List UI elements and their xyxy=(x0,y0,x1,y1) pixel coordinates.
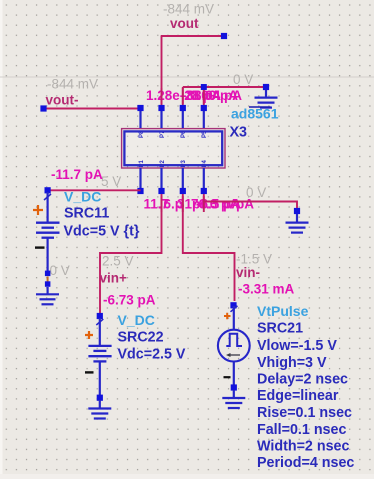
svg-text:Vhigh=3 V: Vhigh=3 V xyxy=(257,355,327,371)
svg-text:Vlow=-1.5 V: Vlow=-1.5 V xyxy=(257,338,337,354)
tick SRC22 xyxy=(96,319,103,325)
stem SRC21 top xyxy=(233,306,235,330)
svg-text:P3: P3 xyxy=(181,159,187,167)
node at ground G1 xyxy=(263,84,269,90)
terminal P4 xyxy=(201,188,207,194)
svg-text:Vdc=2.5 V: Vdc=2.5 V xyxy=(118,347,186,363)
pulse source VtPulse SRC21 xyxy=(218,302,250,385)
ground node G3 xyxy=(45,281,51,287)
svg-text:0.09 pA: 0.09 pA xyxy=(190,88,238,103)
plus sign SRC11 xyxy=(33,205,43,215)
orange pin stub xyxy=(47,277,49,282)
node G5 xyxy=(231,384,237,390)
node vout endpoint xyxy=(221,33,227,39)
terminal SRC11 plus xyxy=(45,187,51,193)
svg-text:SRC22: SRC22 xyxy=(118,330,164,346)
svg-text:V_DC: V_DC xyxy=(64,189,101,205)
svg-text:-6.5 pA: -6.5 pA xyxy=(196,197,241,212)
svg-text:P1: P1 xyxy=(139,159,145,167)
terminal P8 xyxy=(137,105,143,111)
terminal P6 xyxy=(180,105,186,111)
terminal SRC21 plus xyxy=(230,302,236,308)
ground G1 top right xyxy=(255,90,278,108)
plus sign SRC21 xyxy=(224,313,231,319)
terminal P3 xyxy=(180,188,186,194)
svg-text:0 V: 0 V xyxy=(50,263,70,278)
svg-text:-3.31 mA: -3.31 mA xyxy=(238,282,295,297)
svg-text:P7: P7 xyxy=(160,130,166,138)
stem SRC22 top xyxy=(99,318,101,346)
svg-text:vout-: vout- xyxy=(46,93,79,108)
wire riser overlays through top label blob xyxy=(162,88,204,104)
wire top ground net horizontal xyxy=(183,86,266,88)
svg-text:ad8561: ad8561 xyxy=(231,106,279,122)
svg-text:Width=2 nsec: Width=2 nsec xyxy=(257,439,349,455)
svg-text:SRC21: SRC21 xyxy=(257,321,303,337)
svg-text:P6: P6 xyxy=(181,130,187,138)
svg-text:0 V: 0 V xyxy=(233,72,253,87)
wire net vout- xyxy=(44,108,141,110)
terminal SRC22 plus xyxy=(97,313,103,319)
svg-text:Edge=linear: Edge=linear xyxy=(257,388,339,404)
circle SRC21 xyxy=(218,330,250,362)
stem SRC11 top xyxy=(46,192,48,222)
voltage source V_DC SRC22 xyxy=(85,313,112,395)
faint rule xyxy=(0,76,374,78)
svg-text:5 V: 5 V xyxy=(101,174,121,189)
minus sign SRC21 xyxy=(224,376,231,378)
comparator X3 inner body xyxy=(124,131,222,165)
pulse waveform glyph xyxy=(226,334,242,346)
voltage source V_DC SRC11 xyxy=(33,187,60,271)
wire riser overlays through bottom label blob xyxy=(162,196,204,212)
svg-text:P8: P8 xyxy=(139,130,145,138)
pins bottom xyxy=(141,168,204,190)
svg-text:pA: pA xyxy=(236,197,254,212)
svg-text:P5: P5 xyxy=(202,130,208,138)
wire P6 riser to ground net xyxy=(182,87,184,106)
tick SRC11 xyxy=(44,194,51,200)
ground G2 right mid xyxy=(286,214,309,233)
wire net vout horizontal xyxy=(161,35,224,37)
ground G4 below SRC22 xyxy=(88,395,111,419)
node G4 xyxy=(97,395,103,401)
pins top xyxy=(141,108,204,128)
tick SRC21 xyxy=(231,306,238,312)
svg-text:SRC11: SRC11 xyxy=(64,206,109,222)
terminal SRC11 minus xyxy=(45,271,51,277)
terminal P1 xyxy=(137,188,143,194)
wire net vout vertical xyxy=(161,36,163,106)
stem SRC11 bottom xyxy=(46,238,48,271)
ground G3 below SRC11 xyxy=(36,271,59,305)
wire P2 to SRC22 xyxy=(100,194,162,313)
time arrow glyph xyxy=(226,353,240,357)
wire P1 to SRC11 xyxy=(48,189,141,191)
svg-text:P2: P2 xyxy=(160,159,166,167)
svg-text:Vdc=5 V {t}: Vdc=5 V {t} xyxy=(64,224,140,240)
svg-text:Rise=0.1 nsec: Rise=0.1 nsec xyxy=(257,405,352,421)
node at ground G2 xyxy=(294,208,300,214)
svg-text:-11.7 pA: -11.7 pA xyxy=(51,167,103,182)
plus sign SRC22 xyxy=(85,331,93,339)
minus sign SRC22 xyxy=(85,371,94,373)
svg-text:vin-: vin- xyxy=(236,265,260,280)
svg-text:VtPulse: VtPulse xyxy=(257,303,309,319)
terminal vout- left end xyxy=(40,105,46,111)
stem SRC22 bottom xyxy=(99,362,101,395)
terminal P5 xyxy=(201,105,207,111)
minus sign SRC11 xyxy=(35,246,45,248)
svg-text:Period=4 nsec: Period=4 nsec xyxy=(257,455,354,471)
svg-text:-6.73 pA: -6.73 pA xyxy=(103,293,156,308)
svg-text:Fall=0.1 nsec: Fall=0.1 nsec xyxy=(257,422,346,438)
svg-text:2.5 V: 2.5 V xyxy=(102,254,134,269)
svg-text:X3: X3 xyxy=(230,125,248,141)
battery plates SRC11 xyxy=(36,223,60,238)
svg-text:Delay=2 nsec: Delay=2 nsec xyxy=(257,372,348,388)
current label blob bottom xyxy=(144,197,255,212)
stem SRC21 bottom xyxy=(233,361,235,385)
junction square overlay xyxy=(201,84,207,90)
battery plates SRC22 xyxy=(88,346,111,362)
svg-text:vout: vout xyxy=(170,16,199,31)
comparator U X3 outer body xyxy=(122,129,225,168)
svg-text:P4: P4 xyxy=(202,159,208,167)
svg-text:vin+: vin+ xyxy=(100,271,128,286)
svg-text:-844 mV: -844 mV xyxy=(163,2,214,17)
svg-text:V_DC: V_DC xyxy=(118,312,155,328)
current label blob top xyxy=(146,88,242,103)
wire P4 to ground G2 xyxy=(204,194,297,208)
junction at P5 riser xyxy=(201,84,207,90)
terminal P7 xyxy=(158,105,164,111)
wire P3 to SRC21 xyxy=(183,194,235,301)
terminal P2 xyxy=(158,188,164,194)
wire P5 riser xyxy=(203,87,205,106)
ground G5 below SRC21 xyxy=(222,384,245,408)
svg-text:-844 mV: -844 mV xyxy=(47,77,98,92)
overline on ad8561 xyxy=(249,106,271,108)
